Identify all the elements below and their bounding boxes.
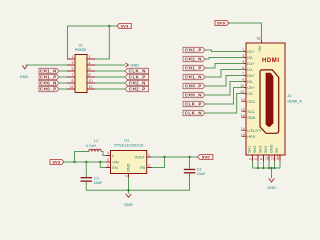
svg-text:D1-: D1-	[247, 68, 254, 72]
svg-text:HDMI_A: HDMI_A	[288, 100, 303, 104]
net flag CH1_P	[39, 74, 59, 79]
svg-text:17: 17	[271, 156, 275, 160]
net flag CH1_N (to HDMI)	[183, 74, 205, 79]
svg-text:SH1: SH1	[248, 146, 252, 153]
U1 pin names right	[134, 155, 145, 170]
HDMI receptacle cavity	[266, 73, 274, 127]
net flag CH0_N (to HDMI)	[183, 92, 205, 97]
svg-text:SH3: SH3	[259, 146, 263, 153]
svg-text:GND: GND	[20, 75, 29, 79]
svg-text:3: 3	[107, 164, 109, 168]
svg-text:L: L	[112, 154, 114, 158]
wire C1 to gnd rail	[85, 182, 87, 190]
svg-text:3V3: 3V3	[52, 160, 60, 165]
svg-text:FB: FB	[140, 166, 145, 170]
pin 14 UTILITY	[241, 127, 262, 133]
svg-text:2: 2	[89, 55, 91, 59]
wire GND right of J2	[95, 64, 125, 66]
wire to ground	[271, 168, 273, 178]
supply flag 5V0 (regulator output)	[198, 155, 213, 160]
svg-text:1: 1	[148, 153, 150, 157]
wire	[205, 70, 244, 78]
net flag CH0_P	[39, 86, 59, 91]
wire U1 gnd	[128, 178, 130, 194]
svg-text:J1: J1	[288, 94, 292, 98]
net flag CLK_N (to HDMI)	[183, 110, 205, 115]
svg-text:CH2_N: CH2_N	[129, 80, 146, 85]
J1 shield pins bottom	[253, 155, 281, 161]
svg-text:CK+: CK+	[247, 86, 255, 90]
net flag CH0_N	[39, 80, 59, 85]
HDMI receptacle outline	[260, 70, 279, 133]
svg-text:11: 11	[70, 85, 74, 89]
junction (C2)	[188, 156, 190, 158]
wire	[59, 70, 67, 72]
J2 pin stubs right	[87, 59, 95, 89]
svg-text:SH2: SH2	[253, 146, 257, 153]
svg-text:CH1_N: CH1_N	[40, 68, 57, 73]
net flag CLK_P	[125, 74, 149, 79]
shield pin names inside	[248, 144, 280, 153]
wire 5V0 to HDMI pin18	[229, 23, 262, 40]
J2 pin numbers right	[89, 55, 93, 89]
wire GND left of J2	[26, 64, 68, 66]
svg-text:7: 7	[72, 73, 74, 77]
svg-text:12: 12	[89, 85, 93, 89]
svg-text:SH4: SH4	[264, 146, 268, 153]
svg-text:HDMI: HDMI	[262, 58, 280, 64]
svg-text:VIN: VIN	[112, 160, 119, 164]
net flag CLK_P (to HDMI)	[183, 101, 205, 106]
net flag CH1_P (to HDMI)	[183, 65, 205, 70]
wire	[59, 88, 67, 90]
wire C2 to gnd rail	[86, 173, 189, 190]
svg-text:C2: C2	[197, 167, 202, 171]
svg-text:3: 3	[72, 61, 74, 65]
svg-text:SDA: SDA	[247, 116, 255, 120]
svg-text:UTILITY: UTILITY	[247, 129, 262, 133]
J2 pin stubs left	[67, 59, 75, 89]
svg-text:CH2_P: CH2_P	[129, 86, 146, 91]
svg-text:L1: L1	[94, 139, 98, 143]
U1 pin stubs right	[147, 153, 152, 168]
svg-text:D1+: D1+	[247, 62, 255, 66]
net flag CLK_N	[125, 68, 149, 73]
pin 18 stub	[261, 40, 263, 43]
svg-text:CH2_N: CH2_N	[185, 56, 202, 61]
svg-text:J2: J2	[78, 44, 82, 48]
svg-text:CH1_N: CH1_N	[185, 74, 202, 79]
svg-text:CLK_N: CLK_N	[129, 68, 146, 73]
wire	[59, 76, 67, 78]
J1 data pin stubs and labels	[240, 48, 255, 96]
wire	[205, 88, 244, 105]
svg-text:14: 14	[241, 127, 245, 131]
net flag CH2_P	[125, 86, 149, 91]
svg-text:D2-: D2-	[247, 56, 254, 60]
svg-text:11: 11	[265, 156, 269, 160]
svg-text:GND: GND	[267, 186, 276, 190]
svg-text:D0+: D0+	[247, 74, 255, 78]
svg-text:HPD: HPD	[247, 135, 255, 139]
ground under U1	[124, 194, 133, 207]
svg-text:4: 4	[89, 61, 91, 65]
svg-text:SH: SH	[276, 155, 280, 160]
supply flag 5V0 top	[215, 20, 229, 25]
inductor L1	[86, 139, 102, 152]
net flag CH2_P (to HDMI)	[183, 47, 205, 52]
svg-text:CH1_P: CH1_P	[185, 65, 202, 70]
svg-text:3V3: 3V3	[121, 24, 129, 29]
supply flag 3V3 top	[117, 23, 131, 28]
svg-text:U1: U1	[124, 138, 129, 142]
supply flag 3V3 (regulator input)	[50, 160, 64, 165]
junction	[108, 25, 110, 27]
wire	[95, 76, 125, 78]
svg-text:2: 2	[249, 158, 253, 160]
svg-text:1: 1	[72, 55, 74, 59]
wire	[205, 50, 244, 52]
capacitor C1	[81, 177, 104, 185]
svg-text:6: 6	[89, 67, 91, 71]
junction (EN branch)	[99, 161, 101, 163]
svg-text:TPS613220DCK: TPS613220DCK	[114, 144, 144, 148]
svg-text:19: 19	[241, 133, 245, 137]
svg-text:+5V: +5V	[258, 45, 262, 52]
svg-text:CH0_P: CH0_P	[40, 86, 57, 91]
svg-text:4: 4	[107, 152, 109, 156]
svg-text:9: 9	[72, 79, 74, 83]
pin 19 HPD	[241, 133, 256, 139]
junctions	[257, 167, 276, 169]
svg-text:15: 15	[241, 108, 245, 112]
svg-text:CH1_P: CH1_P	[40, 74, 57, 79]
svg-text:VOUT: VOUT	[134, 155, 145, 159]
svg-text:GND: GND	[126, 163, 130, 172]
svg-text:5: 5	[107, 158, 109, 162]
wire	[205, 58, 244, 60]
net flag CH1_N	[39, 68, 59, 73]
U1 pin names left	[112, 154, 119, 170]
svg-text:16: 16	[241, 114, 245, 118]
junction	[127, 189, 129, 191]
svg-text:CEC: CEC	[247, 100, 255, 104]
wire FB loop	[152, 157, 165, 168]
svg-text:10: 10	[89, 79, 93, 83]
svg-text:CK-: CK-	[247, 92, 254, 96]
wire L1 to U1	[101, 152, 106, 156]
svg-text:10uF: 10uF	[197, 172, 206, 176]
svg-text:CLK_N: CLK_N	[185, 110, 202, 115]
wire VOUT to 5V0	[152, 156, 198, 158]
svg-text:10uF: 10uF	[94, 181, 103, 185]
wire 3V3 to J2 pin1	[68, 26, 117, 59]
svg-text:2: 2	[148, 164, 150, 168]
wire to C2	[189, 157, 191, 169]
svg-text:5V0: 5V0	[202, 155, 210, 160]
ground under HDMI	[267, 178, 276, 190]
svg-text:EN: EN	[112, 166, 118, 170]
net flag CH2_N	[125, 80, 149, 85]
svg-text:5: 5	[254, 158, 258, 160]
ground left	[20, 65, 29, 79]
junction (C1 branch)	[85, 161, 87, 163]
svg-text:SH: SH	[275, 147, 279, 153]
wire	[95, 88, 125, 90]
svg-text:CLK_P: CLK_P	[129, 74, 146, 79]
svg-text:GND: GND	[270, 144, 274, 153]
wire 3V3 to J2 pin2	[95, 26, 109, 59]
U1 pin stubs left	[106, 152, 111, 168]
svg-text:8: 8	[260, 158, 264, 160]
wire down to C1	[85, 162, 87, 177]
svg-text:SCL: SCL	[247, 110, 254, 114]
pin 15 SCL	[241, 108, 255, 114]
svg-text:CH0_N: CH0_N	[40, 80, 57, 85]
net flag CH2_N (to HDMI)	[183, 56, 205, 61]
svg-text:CH2_P: CH2_P	[185, 47, 202, 52]
svg-text:D0-: D0-	[247, 80, 254, 84]
net flag CH0_P (to HDMI)	[183, 83, 205, 88]
junction (FB)	[163, 156, 165, 158]
wire	[205, 64, 244, 69]
wire	[95, 70, 125, 72]
svg-text:13: 13	[241, 98, 245, 102]
svg-text:5V0: 5V0	[217, 21, 225, 26]
svg-text:5: 5	[72, 67, 74, 71]
regulator U1 body	[111, 138, 147, 173]
svg-text:GND: GND	[131, 64, 140, 68]
connector J1 HDMI_A body	[246, 43, 302, 155]
shield ground wires	[253, 161, 281, 168]
svg-text:18: 18	[257, 37, 261, 41]
pin 16 SDA	[241, 114, 256, 120]
pin 13 CEC	[241, 98, 256, 104]
wire to EN	[100, 162, 106, 168]
wire	[205, 82, 244, 96]
junction (inductor branch)	[73, 161, 75, 163]
J2 pin numbers left	[70, 55, 74, 89]
capacitor C2	[184, 167, 206, 176]
svg-text:C1: C1	[94, 177, 99, 181]
wire	[95, 82, 125, 84]
svg-text:D2+: D2+	[247, 50, 255, 54]
wire 3V3 to U1 VIN	[64, 161, 106, 163]
svg-text:PMOD: PMOD	[75, 48, 87, 52]
wire	[59, 82, 67, 84]
svg-text:8: 8	[89, 73, 91, 77]
wire	[205, 76, 244, 87]
svg-text:CH0_P: CH0_P	[185, 83, 202, 88]
ground right	[125, 63, 139, 68]
svg-text:CH0_N: CH0_N	[185, 92, 202, 97]
svg-text:4.7uH: 4.7uH	[86, 144, 96, 148]
svg-text:2: 2	[125, 175, 129, 177]
shield pin numbers	[249, 155, 281, 160]
wire	[205, 94, 244, 114]
svg-text:GND: GND	[124, 203, 133, 207]
svg-text:CLK_P: CLK_P	[185, 101, 202, 106]
wire up to L1	[75, 152, 89, 163]
U1 GND pin	[125, 163, 131, 177]
connector J2 PMOD body	[75, 44, 87, 93]
